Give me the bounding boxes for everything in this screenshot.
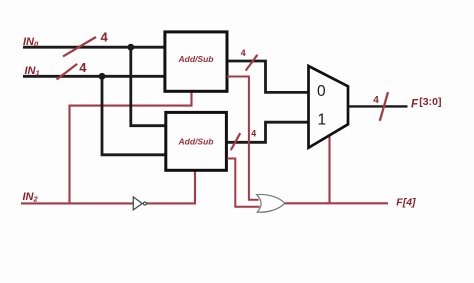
XOR gate G2 [257,194,285,212]
bus slash U2 output [231,133,240,150]
wire carry out Add/Sub U1 to XOR [227,77,259,200]
svg-text:1: 1 [318,111,327,128]
bus slash IN1 [57,64,78,80]
bus width label 4 on U1 output [241,48,246,58]
node junction on IN1 [99,73,106,80]
svg-text:4: 4 [241,48,246,58]
wire IN1 (black) [23,75,165,78]
wire carry out Add/Sub U2 to XOR [227,159,260,207]
svg-text:F: F [411,98,419,110]
wire Add/Sub U1 output to mux input 0 [227,61,309,92]
mux U3 trapezoid [309,66,349,148]
Add/Sub U2 box [166,112,227,170]
bus slash IN0 [63,37,96,56]
svg-text:F[4]: F[4] [396,196,416,208]
svg-text:4: 4 [251,128,256,138]
wire mux output F [348,105,408,107]
bus slash mux output [380,92,388,121]
wire NOT gate output to Add/Sub U2 control [146,171,195,204]
wire IN0 branch to Add/Sub U2 [131,47,166,126]
NOT gate G1 [133,197,146,210]
label IN0 [23,36,39,48]
Add/Sub U1 box [165,32,227,91]
wire control to Add/Sub U1 from IN2 junction [70,91,192,204]
bus width label 4 on IN1 [79,60,87,75]
svg-text:4: 4 [101,29,109,44]
svg-text:0: 0 [317,83,326,100]
svg-text:Add/Sub: Add/Sub [178,137,214,147]
bus width label 4 on mux output [373,95,379,106]
label F [3:0] [411,96,441,111]
wire IN0 (black) [23,46,165,49]
bus width label 4 on IN0 [101,29,109,44]
label F[4] [396,196,416,208]
label IN2 [23,191,39,203]
wire IN2 input (red) [21,202,133,204]
svg-text:4: 4 [79,60,87,75]
bus width label 4 on U2 output [251,128,256,138]
bus slash U1 output [246,55,258,71]
wire IN1 branch to Add/Sub U2 [102,76,166,155]
wire mux select from XOR output [328,135,330,204]
wire Add/Sub U2 output to mux input 1 [227,122,309,142]
svg-text:[3:0]: [3:0] [419,96,441,108]
wire XOR output to F4 [285,202,388,204]
label IN1 [25,65,40,77]
svg-text:Add/Sub: Add/Sub [178,54,214,64]
svg-text:4: 4 [373,95,379,106]
node junction on IN0 [127,44,134,51]
